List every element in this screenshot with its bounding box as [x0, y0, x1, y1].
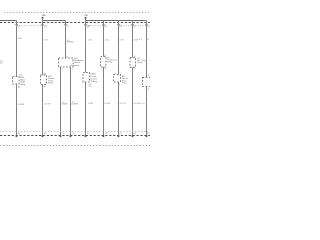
relay B (dashed box) — [101, 57, 107, 68]
wire W8 — [118, 21, 120, 75]
wire W2 lower — [42, 85, 44, 137]
svg-text:B1: B1 — [44, 133, 47, 135]
svg-text:C5: C5 — [72, 133, 75, 135]
feed bus segment left — [0, 20, 17, 22]
svg-text:6: 6 — [120, 27, 121, 29]
connector tick at W8 — [117, 24, 120, 26]
svg-text:Front: Front — [122, 82, 127, 85]
svg-text:Relay: Relay — [107, 62, 112, 64]
svg-text:30 Amp: 30 Amp — [90, 80, 98, 83]
svg-text:1.0G: 1.0G — [88, 39, 93, 41]
svg-text:87: 87 — [134, 69, 136, 71]
wire W7 terminal — [103, 135, 105, 137]
svg-text:0.5U: 0.5U — [105, 39, 110, 41]
svg-text:A1: A1 — [18, 85, 21, 88]
svg-text:3: 3 — [62, 69, 64, 71]
svg-text:D4: D4 — [67, 25, 69, 27]
svg-text:0.5 YE: 0.5 YE — [44, 104, 51, 106]
wire W6 (fuse F2 down to breaker C) — [85, 18, 87, 72]
svg-text:F2: F2 — [147, 133, 150, 135]
wire W8 lower — [118, 82, 120, 136]
svg-text:Assembly: Assembly — [71, 64, 80, 67]
connector tick at W1 — [15, 24, 18, 26]
fuse F1 element — [42, 17, 44, 19]
svg-text:Relay: Relay — [137, 62, 142, 64]
relay D (dashed box on W9) — [130, 58, 136, 68]
wire W7 to relay B — [103, 21, 105, 57]
ground module bottom edge (dotted) — [0, 145, 150, 147]
wire W1 lower — [16, 84, 18, 136]
svg-text:0.5 WH: 0.5 WH — [134, 103, 141, 105]
switch A (dashed box) — [59, 58, 74, 67]
wire W1 left drop — [16, 21, 18, 77]
svg-text:8: 8 — [105, 27, 106, 29]
svg-text:16: 16 — [44, 27, 46, 29]
fuse block top edge (dotted) — [4, 12, 149, 14]
svg-text:D8: D8 — [105, 133, 108, 135]
wire W9 — [132, 21, 134, 58]
svg-text:16: 16 — [66, 56, 68, 58]
svg-text:0.5G: 0.5G — [120, 39, 125, 41]
svg-text:0.5 BU: 0.5 BU — [104, 103, 111, 105]
connector strip C3 (dotted, W8-W10) — [119, 25, 147, 27]
wire W7 lower — [103, 67, 105, 136]
connector strip C1 (dotted, W1-W2) — [17, 25, 43, 27]
svg-text:0.5: 0.5 — [139, 39, 143, 41]
svg-text:B2: B2 — [44, 74, 47, 76]
wire W6 terminal — [85, 135, 87, 137]
connector tick at W6 — [84, 24, 87, 26]
ground module top edge (dotted) — [0, 131, 150, 133]
svg-text:Relay: Relay — [20, 84, 25, 86]
svg-text:BU/WH: BU/WH — [72, 104, 79, 106]
module L (dashed box) — [13, 77, 20, 85]
svg-text:A4: A4 — [18, 132, 21, 135]
wire W9 terminal — [132, 135, 134, 137]
wire W3 to switch A — [65, 21, 67, 59]
svg-text:0.5W: 0.5W — [134, 39, 139, 41]
svg-text:C3: C3 — [62, 133, 65, 135]
wire W4 switch A out1 — [60, 67, 62, 136]
wire W10 lower — [146, 87, 148, 137]
svg-text:5: 5 — [148, 27, 149, 29]
feed bus segment from fuse F2 — [86, 18, 147, 20]
wire W10 — [146, 21, 148, 78]
svg-text:0.5Y: 0.5Y — [44, 39, 49, 41]
module F (dashed box on W10, clipped at right edge) — [143, 77, 152, 86]
svg-text:B: B — [147, 39, 149, 41]
svg-text:30A: 30A — [42, 14, 46, 17]
connector tick at W3 — [64, 24, 67, 26]
relay M (dashed box on W2) — [41, 75, 47, 85]
svg-text:Motor: Motor — [48, 82, 53, 85]
svg-text:X125: X125 — [88, 103, 94, 105]
svg-text:3: 3 — [148, 75, 150, 77]
wire W6 lower — [85, 82, 87, 136]
svg-text:1: 1 — [72, 69, 74, 71]
connector tick at W9 — [131, 24, 134, 26]
wire W5 terminal — [70, 135, 72, 137]
svg-text:GN/BK: GN/BK — [62, 104, 69, 106]
svg-text:E2: E2 — [120, 133, 123, 135]
fuse block bottom edge / connector bus (dashed) — [0, 22, 150, 24]
connector tick at W7 — [102, 24, 105, 26]
wire W8 terminal — [118, 135, 120, 137]
wire W2 terminal — [42, 135, 44, 137]
wire W5 switch A out2 — [70, 67, 72, 136]
connector tick at W2 — [41, 24, 44, 26]
svg-text:OG: OG — [89, 86, 93, 88]
circuit breaker C (dashed box) — [83, 73, 90, 83]
svg-text:2: 2 — [119, 84, 121, 86]
svg-text:15A: 15A — [84, 14, 88, 17]
svg-text:0.5 GY: 0.5 GY — [120, 103, 127, 105]
fuse F2 element — [85, 17, 87, 19]
feed bus segment from fuse F1 — [43, 18, 66, 20]
svg-text:Switch: Switch — [74, 61, 80, 64]
svg-text:D2: D2 — [87, 133, 90, 135]
wire W1 terminal — [16, 135, 18, 137]
ground bus (dashed) — [0, 135, 150, 137]
connector tick at W10 — [145, 24, 148, 26]
wire W2 (fuse F1 down) — [42, 18, 44, 75]
svg-text:B1: B1 — [20, 74, 23, 76]
wire W10 terminal — [146, 135, 148, 137]
svg-text:BN/WH: BN/WH — [67, 42, 74, 44]
wire W4 terminal — [60, 135, 62, 137]
svg-text:X5: X5 — [0, 63, 3, 65]
svg-text:3: 3 — [134, 27, 135, 29]
svg-text:0.8R: 0.8R — [18, 38, 23, 40]
svg-text:87: 87 — [105, 69, 107, 71]
svg-text:0.5: 0.5 — [142, 103, 146, 105]
svg-text:E6: E6 — [134, 133, 137, 135]
wire W9 lower — [132, 67, 134, 136]
svg-text:2: 2 — [18, 27, 19, 29]
connector strip C2 (dotted, W6-W7) — [86, 25, 104, 27]
svg-text:A2: A2 — [44, 85, 47, 88]
svg-text:4: 4 — [148, 88, 150, 90]
sensor E (dashed box on W8) — [114, 75, 121, 83]
svg-text:0.8 BN: 0.8 BN — [18, 104, 25, 106]
svg-text:34: 34 — [87, 27, 89, 29]
